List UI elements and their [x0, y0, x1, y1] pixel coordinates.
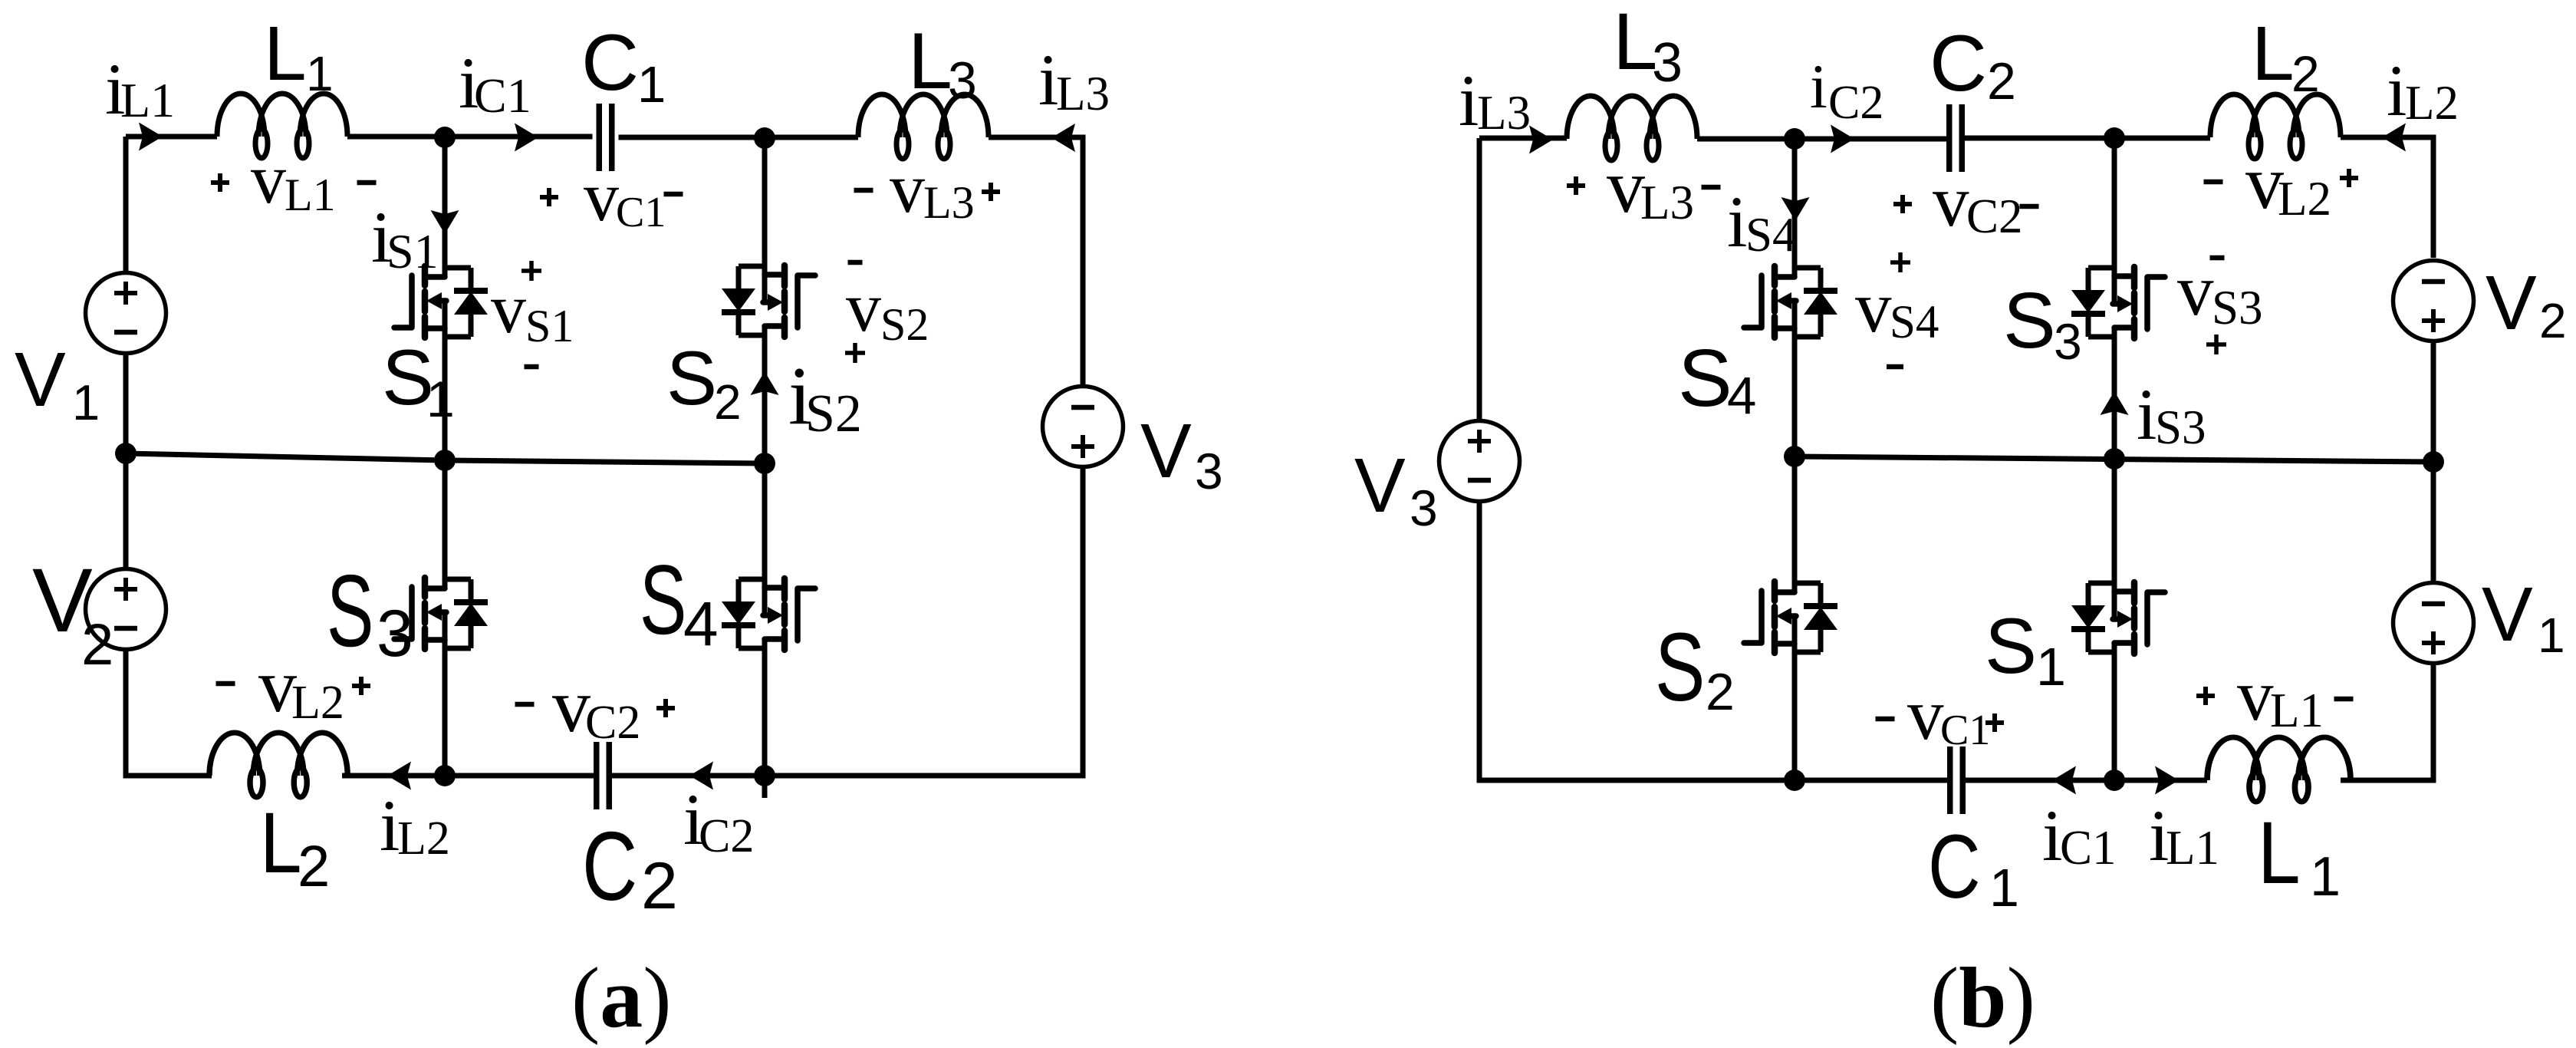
svg-text:1: 1: [2310, 846, 2341, 908]
voltage source V2 (b): [2393, 261, 2474, 341]
capacitor C2 (b): [1949, 104, 1962, 172]
svg-text:S4: S4: [1745, 208, 1797, 262]
transistor S3: [394, 578, 488, 649]
wire: (a) middle rail: [126, 453, 765, 463]
label vL3 (b) polarity -: [1702, 185, 1721, 190]
svg-text:S: S: [2003, 276, 2056, 364]
svg-text:3: 3: [377, 597, 413, 671]
wire: (b) S3 drain through mid rail to S1: [2112, 328, 2117, 619]
wire: (b) S4 source to S2 drain: [1792, 301, 1798, 592]
svg-text:V: V: [1140, 408, 1192, 494]
svg-text:3: 3: [2054, 313, 2082, 370]
label vL2 (b) polarity -: [2204, 180, 2223, 185]
svg-text:L: L: [264, 11, 307, 97]
current arrow iL1 (b, right): [2155, 766, 2179, 795]
label vS2 polarity -: [848, 260, 863, 265]
label vS4 (b) polarity -: [1887, 364, 1903, 370]
wire: (b) S3 branch top lead: [2112, 138, 2117, 304]
label vS3 (b) polarity -: [2210, 255, 2225, 261]
node: (a) mid rail at S2/S4 branch: [754, 453, 775, 474]
svg-text:C2: C2: [1966, 189, 2023, 243]
wire: (b) bottom rail C1 to L1: [1962, 778, 2207, 783]
current arrow iS4 (down): [1781, 197, 1810, 221]
current arrow iL2 (left): [387, 762, 411, 790]
inductor L2 (b): [2210, 94, 2341, 159]
svg-text:C2: C2: [1828, 77, 1883, 129]
svg-text:i: i: [1727, 181, 1747, 262]
svg-text:L2: L2: [291, 677, 344, 729]
node: (a) top of S2 branch: [754, 127, 775, 149]
svg-text:L3: L3: [923, 177, 975, 228]
svg-text:4: 4: [683, 589, 719, 659]
inductor L1 (b): [2207, 737, 2351, 802]
svg-text:L2: L2: [397, 812, 450, 865]
svg-text:L: L: [1613, 0, 1657, 87]
svg-text:1: 1: [1989, 858, 2019, 918]
svg-text:C2: C2: [699, 810, 754, 862]
svg-text:v: v: [2237, 654, 2274, 736]
svg-text:(a): (a): [571, 951, 672, 1046]
svg-text:1: 1: [637, 56, 666, 114]
svg-text:S: S: [327, 554, 373, 668]
svg-text:L1: L1: [285, 170, 336, 220]
inductor L3 (b): [1567, 96, 1697, 160]
svg-text:1: 1: [2538, 608, 2565, 663]
svg-text:4: 4: [1727, 366, 1756, 425]
capacitor C1 (b): [1950, 746, 1963, 814]
svg-text:V: V: [2486, 260, 2537, 346]
label vS1 polarity -: [525, 364, 539, 370]
wire: (b) top rail L3 to C2: [1697, 137, 1949, 142]
wire: (a) S2 branch top lead: [762, 138, 768, 302]
wire: (a) top rail left segment: [126, 134, 217, 140]
svg-text:v: v: [2177, 249, 2214, 331]
current arrow iC2 (b): [1831, 125, 1854, 153]
svg-text:v: v: [890, 149, 925, 227]
node: (b) mid rail at right wire: [2423, 451, 2444, 473]
label vC1 polarity -: [664, 192, 683, 197]
svg-text:S: S: [666, 335, 717, 420]
svg-text:C1: C1: [616, 189, 666, 236]
node: (b) bottom rail at S1 branch: [2104, 770, 2125, 791]
node: (b) bottom rail at S2 branch: [1784, 770, 1805, 791]
label vL3 polarity +: [982, 183, 1000, 201]
svg-text:v: v: [1855, 266, 1892, 348]
current arrow iC1: [515, 124, 538, 152]
svg-text:2: 2: [1706, 663, 1735, 721]
wire: (a) left branch top: [123, 137, 129, 271]
label vL2 (b) polarity +: [2340, 169, 2358, 187]
svg-text:V: V: [2482, 572, 2533, 657]
svg-text:L3: L3: [1477, 86, 1531, 140]
label vC2 (b) polarity +: [1893, 195, 1912, 213]
voltage source V1: [86, 273, 166, 354]
svg-text:2: 2: [298, 834, 330, 899]
svg-text:C1: C1: [1940, 707, 1990, 754]
svg-text:L: L: [2258, 802, 2301, 901]
svg-text:(b): (b): [1930, 951, 2035, 1046]
svg-text:v: v: [1933, 160, 1969, 242]
wire: (a) S2 drain to S4 top: [762, 326, 768, 615]
svg-text:3: 3: [1195, 443, 1223, 499]
label vS3 (b) polarity +: [2206, 335, 2226, 354]
label vC2 polarity -: [515, 702, 535, 707]
svg-text:S2: S2: [805, 384, 862, 443]
svg-text:1: 1: [306, 46, 334, 101]
svg-text:v: v: [1607, 143, 1645, 229]
wire: (b) middle rail: [1795, 456, 2433, 462]
svg-text:V: V: [15, 337, 66, 423]
svg-text:2: 2: [81, 612, 114, 677]
wire: (a) S4 drain to bottom rail: [762, 639, 768, 798]
voltage source V2: [86, 569, 166, 650]
transistor S4 (b): [1744, 266, 1837, 338]
label vL1 polarity +: [211, 173, 229, 192]
svg-text:C: C: [582, 813, 637, 921]
node: (a) mid rail at S1/S3 branch: [434, 450, 456, 471]
transistor S2: [722, 265, 815, 337]
svg-text:L3: L3: [1640, 176, 1694, 229]
wire: (b) S1 drain to bottom rail: [2112, 643, 2117, 780]
label vC2 polarity +: [656, 699, 675, 717]
svg-text:i: i: [2137, 374, 2157, 455]
svg-text:L1: L1: [2166, 821, 2219, 875]
current arrow iL1: [139, 123, 163, 151]
node: (b) top of S4 branch: [1784, 128, 1805, 150]
wire: (a) bottom rail right segment: [610, 773, 765, 779]
label vC1 (b) polarity -: [1876, 717, 1895, 722]
svg-text:S1: S1: [525, 301, 574, 351]
svg-text:S2: S2: [880, 299, 929, 350]
label vC1 polarity +: [540, 188, 558, 206]
svg-text:C: C: [1930, 19, 1987, 108]
svg-text:S4: S4: [1890, 297, 1939, 348]
node: (a) bottom rail at S4 branch: [754, 765, 775, 786]
label vL1 (b) polarity +: [2196, 687, 2215, 705]
capacitor C1: [599, 104, 612, 171]
svg-text:S3: S3: [2212, 281, 2263, 335]
svg-text:2: 2: [714, 374, 742, 430]
node: (b) mid rail at S4/S2 branch: [1784, 446, 1805, 467]
svg-text:v: v: [584, 157, 619, 236]
svg-text:V: V: [1354, 443, 1406, 529]
node: (a) mid rail at sources branch: [115, 443, 137, 464]
label vL2 polarity -: [216, 681, 235, 687]
svg-text:3: 3: [948, 51, 977, 110]
current arrow iC2 (left): [689, 762, 713, 790]
capacitor C2: [597, 742, 610, 809]
wire: (a) S1 source to S3 drain: [442, 301, 448, 588]
svg-text:2: 2: [1987, 52, 2016, 110]
wire: (b) top rail left segment: [1479, 136, 1567, 141]
wire: (b) S4 branch top lead: [1792, 139, 1798, 277]
wire: (b) bottom rail S2 branch to C1: [1795, 778, 1950, 783]
transistor S2 (b): [1744, 582, 1837, 653]
wire: (b) top rail L2 to top-right corner: [2341, 137, 2433, 258]
svg-text:1: 1: [2036, 637, 2066, 697]
svg-text:L1: L1: [2270, 684, 2324, 737]
transistor S3 (b): [2071, 267, 2165, 338]
wire: (a) top rail L1 to C1: [347, 134, 593, 140]
svg-text:S: S: [1678, 333, 1732, 423]
svg-text:v: v: [491, 269, 526, 348]
svg-text:C: C: [581, 18, 639, 107]
label vL3 (b) polarity +: [1567, 176, 1585, 195]
label vC2 (b) polarity -: [2020, 204, 2039, 209]
voltage source V3 (a): [1043, 387, 1124, 467]
current arrow iL2 (b): [2382, 124, 2406, 152]
wire: (b) top-left corner to V3: [1477, 138, 1482, 419]
wire: (b) top rail C2 to L2: [1962, 136, 2211, 141]
svg-text:i: i: [2387, 50, 2407, 131]
svg-text:L3: L3: [1056, 67, 1110, 120]
svg-text:C: C: [1928, 816, 1981, 917]
current arrow iL3: [1051, 124, 1075, 152]
svg-text:1: 1: [72, 374, 100, 430]
label vL1 (b) polarity -: [2334, 697, 2354, 702]
label vL1 polarity -: [357, 180, 377, 186]
svg-text:C1: C1: [474, 68, 531, 123]
svg-text:S: S: [1985, 602, 2037, 690]
wire: (a) V2 bottom to bottom-left corner: [126, 651, 212, 776]
label vC1 (b) polarity +: [1985, 713, 2004, 732]
svg-text:v: v: [251, 140, 286, 218]
current arrow iS3 (up): [2101, 391, 2129, 415]
voltage source V1 (b): [2393, 583, 2474, 664]
wire: (a) V1 bottom to mid rail: [123, 355, 129, 567]
current arrow iC1 (b, left): [2052, 766, 2076, 795]
transistor S4: [722, 578, 815, 650]
svg-text:L: L: [260, 795, 302, 891]
wire: (a) S1 branch top lead: [442, 137, 448, 277]
svg-text:S1: S1: [387, 224, 439, 278]
wire: (b) V3 bottom to bottom-left corner: [1479, 503, 1795, 780]
voltage source V3 (b): [1439, 421, 1520, 502]
node: (a) bottom rail at S3 branch: [434, 765, 456, 786]
node: (b) top of S3 branch: [2104, 127, 2125, 149]
svg-text:L2: L2: [2405, 76, 2459, 130]
svg-text:S: S: [640, 545, 686, 655]
transistor S1: [394, 266, 488, 338]
svg-text:1: 1: [426, 371, 455, 427]
transistor S1 (b): [2071, 582, 2165, 654]
svg-text:3: 3: [1410, 480, 1438, 536]
node: (b) mid rail at S3/S1 branch: [2104, 448, 2125, 470]
label vS1 polarity +: [521, 261, 541, 281]
current arrow iL3 (b): [1529, 126, 1553, 154]
label vL2 polarity +: [352, 677, 370, 695]
svg-text:L: L: [2252, 11, 2295, 97]
wire: (a) V3 bottom to bottom-right corner: [765, 467, 1083, 776]
svg-text:3: 3: [1652, 32, 1683, 94]
svg-text:2: 2: [2291, 45, 2320, 102]
svg-text:2: 2: [2539, 293, 2567, 348]
svg-text:i: i: [1810, 51, 1828, 121]
label vS4 (b) polarity +: [1890, 252, 1910, 272]
wire: (a) bottom rail C2 to S3 branch: [342, 773, 597, 779]
svg-text:C2: C2: [585, 697, 640, 749]
svg-text:L1: L1: [120, 73, 175, 127]
svg-text:C1: C1: [2060, 821, 2117, 875]
node: (a) top of S1 branch: [434, 127, 456, 148]
wire: (b) S2 source to bottom rail: [1792, 616, 1798, 780]
svg-text:i: i: [1459, 60, 1479, 141]
svg-text:L2: L2: [2278, 172, 2331, 226]
inductor L3: [858, 94, 989, 159]
wire: (b) V1 bottom to bottom-right corner: [2341, 665, 2433, 780]
wire: (a) top rail L3 to top-right corner: [989, 137, 1083, 386]
label vS2 polarity +: [845, 343, 865, 363]
svg-text:S3: S3: [2155, 400, 2206, 454]
svg-text:2: 2: [641, 849, 678, 923]
wire: (a) top rail C1 to L3: [619, 135, 859, 140]
label vL3 polarity -: [854, 188, 873, 193]
inductor L1: [217, 94, 347, 158]
current arrow iS2 (up): [751, 371, 779, 395]
svg-text:v: v: [1907, 674, 1944, 755]
wire: (b) V2 to V1: [2431, 343, 2436, 581]
svg-text:L: L: [908, 17, 952, 106]
svg-text:S: S: [1655, 613, 1705, 721]
current arrow iS1 (down): [431, 210, 459, 234]
inductor L2: [209, 733, 347, 797]
wire: (a) S3 source to bottom rail: [442, 612, 448, 776]
svg-text:v: v: [846, 268, 881, 346]
